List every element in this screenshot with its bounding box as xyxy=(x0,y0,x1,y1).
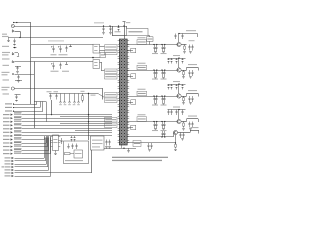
net label N9 xyxy=(14,130,22,132)
resistor R51 xyxy=(137,40,147,45)
capacitor C70 xyxy=(162,122,164,125)
capacitor C68 xyxy=(156,96,158,99)
ground xyxy=(189,76,192,78)
wire stub xyxy=(128,50,134,52)
wire xyxy=(178,34,180,43)
pin label 6 xyxy=(105,98,118,103)
connector pin P19 xyxy=(12,166,14,168)
node xyxy=(161,44,162,45)
net label X1 xyxy=(100,53,106,58)
ground xyxy=(128,148,130,150)
wire xyxy=(98,94,105,98)
wire xyxy=(40,102,42,108)
wire xyxy=(128,96,178,98)
supply rail xyxy=(168,84,186,86)
capacitor C11 xyxy=(56,94,58,96)
capacitor C22 xyxy=(12,51,14,54)
net label N10 xyxy=(14,134,22,136)
wire xyxy=(124,26,126,39)
node F xyxy=(92,57,94,59)
wire xyxy=(91,150,93,173)
inductor L1 xyxy=(70,45,72,47)
label xyxy=(5,172,11,173)
wire xyxy=(181,121,186,123)
label xyxy=(115,31,121,32)
connector pin P15 xyxy=(11,153,13,155)
transistor Q3 xyxy=(177,94,181,98)
label xyxy=(5,169,11,170)
label xyxy=(65,160,83,161)
node T1 xyxy=(13,103,14,104)
label xyxy=(161,130,167,131)
net label N12 xyxy=(14,141,22,143)
wire xyxy=(22,146,48,148)
ground xyxy=(174,149,177,151)
wire xyxy=(22,125,113,127)
net label N13 xyxy=(14,144,22,146)
wire xyxy=(22,114,113,116)
capacitor C36 xyxy=(76,144,78,146)
resistor R40 xyxy=(147,37,154,42)
ground xyxy=(16,71,19,73)
ground xyxy=(182,76,185,78)
ground xyxy=(162,103,165,105)
connector pin P18 xyxy=(12,163,14,165)
note text xyxy=(112,157,168,158)
label xyxy=(2,87,10,88)
wire xyxy=(181,70,186,72)
box U4 enclosure xyxy=(64,141,89,164)
capacitor C97 xyxy=(148,143,150,145)
label xyxy=(3,142,10,143)
ground xyxy=(13,44,16,46)
wire xyxy=(34,62,36,129)
wire xyxy=(15,160,46,162)
note text xyxy=(112,160,162,161)
wire xyxy=(22,118,113,120)
connector pin P10 xyxy=(11,135,13,137)
wire xyxy=(173,133,175,138)
oscillator Y1 xyxy=(91,136,105,150)
ground xyxy=(182,128,185,130)
wire xyxy=(46,138,48,165)
capacitor C5 xyxy=(60,63,62,65)
capacitor C77 xyxy=(182,84,184,86)
wire xyxy=(181,44,186,46)
wire xyxy=(128,70,178,72)
wire xyxy=(51,100,53,115)
connector line J15 xyxy=(190,130,199,132)
capacitor C69 xyxy=(162,96,164,99)
wire xyxy=(15,74,35,76)
wire xyxy=(15,170,49,172)
capacitor C75 xyxy=(171,58,173,60)
capacitor C71 xyxy=(176,58,178,60)
capacitor C67 xyxy=(156,70,158,73)
wire xyxy=(112,26,114,36)
node A xyxy=(13,22,14,23)
resistor R54 xyxy=(137,117,147,122)
wire xyxy=(121,145,123,148)
transistor Q4 xyxy=(177,119,181,123)
label xyxy=(2,58,10,59)
label xyxy=(3,128,10,129)
wire xyxy=(46,136,48,143)
wire stub xyxy=(128,76,134,78)
capacitor C73 xyxy=(192,70,194,72)
label xyxy=(91,95,96,96)
label xyxy=(51,71,59,72)
connector pin P9 xyxy=(11,131,13,133)
wire xyxy=(15,80,22,82)
capacitor C100 xyxy=(164,131,166,133)
IC U3 xyxy=(53,135,59,151)
label xyxy=(5,160,11,161)
ground xyxy=(148,149,151,151)
label xyxy=(2,166,5,167)
node xyxy=(88,93,89,94)
capacitor C67 xyxy=(162,45,164,48)
capacitor C68 xyxy=(154,122,156,125)
label xyxy=(3,121,10,122)
transistor Q10 xyxy=(11,24,14,27)
capacitor C74 xyxy=(192,96,194,98)
label xyxy=(161,53,167,54)
resistor R61 xyxy=(184,45,186,47)
wire xyxy=(128,142,176,144)
wire xyxy=(13,104,37,106)
label xyxy=(3,132,10,133)
wire xyxy=(15,166,48,168)
label xyxy=(188,64,197,65)
wire xyxy=(15,31,21,33)
wire xyxy=(128,121,178,123)
capacitor C33 xyxy=(109,140,111,142)
IC U5 xyxy=(74,150,83,158)
wire xyxy=(22,121,113,123)
resistor R4 xyxy=(74,94,76,102)
capacitor C76 xyxy=(182,58,184,60)
ground xyxy=(105,146,108,148)
wire xyxy=(46,102,48,122)
label xyxy=(5,166,11,167)
resistor R2 xyxy=(64,94,66,102)
node xyxy=(178,109,179,110)
label xyxy=(3,153,10,154)
wire xyxy=(22,128,113,130)
resistor R6 xyxy=(82,94,84,96)
wire xyxy=(178,58,180,68)
label xyxy=(3,139,10,140)
ground xyxy=(181,138,184,140)
wire xyxy=(126,26,128,29)
wire xyxy=(178,110,180,120)
label xyxy=(5,110,12,111)
capacitor C25 xyxy=(18,75,20,77)
label xyxy=(5,107,12,108)
label xyxy=(138,114,146,115)
capacitor C34 xyxy=(71,136,73,138)
wire xyxy=(100,50,105,52)
label xyxy=(2,54,9,55)
pin label 7 xyxy=(105,118,118,123)
label xyxy=(94,22,104,23)
wire xyxy=(45,138,47,162)
wire xyxy=(31,57,100,59)
wire xyxy=(178,84,180,94)
ground xyxy=(15,100,18,102)
wire xyxy=(22,143,47,145)
wire xyxy=(50,138,52,177)
pin label 1 xyxy=(105,45,118,50)
connector pin P5 xyxy=(11,117,13,119)
wire xyxy=(44,136,46,140)
label xyxy=(189,40,195,41)
wire xyxy=(8,37,103,39)
wire xyxy=(175,135,177,143)
connector pin P4 xyxy=(11,114,13,116)
polarized capacitor C2 xyxy=(60,46,62,49)
label xyxy=(3,93,10,94)
label xyxy=(161,79,167,80)
connector pin P14 xyxy=(11,149,13,151)
supply rail xyxy=(168,109,186,111)
label xyxy=(2,89,8,90)
label xyxy=(2,74,8,75)
wire xyxy=(30,23,32,105)
wire xyxy=(13,107,40,109)
ground xyxy=(55,151,57,153)
ground xyxy=(162,77,165,79)
label xyxy=(138,63,146,64)
transistor Q11 xyxy=(11,87,14,90)
resistor R30 xyxy=(12,73,14,75)
net label N15 xyxy=(14,151,22,153)
capacitor C77 xyxy=(171,110,173,112)
node xyxy=(51,114,52,115)
label xyxy=(161,105,167,106)
capacitor C62 xyxy=(131,74,136,78)
inductor L2 xyxy=(66,62,68,64)
wire xyxy=(15,158,45,160)
capacitor C24 xyxy=(17,66,19,68)
capacitor C98 xyxy=(151,143,153,145)
wire xyxy=(15,94,21,96)
resistor R62 xyxy=(183,70,185,72)
polarized capacitor C23 xyxy=(12,59,14,62)
wire xyxy=(34,61,93,63)
pin label 8 xyxy=(105,123,118,128)
wire xyxy=(178,132,190,134)
label xyxy=(3,65,10,66)
label xyxy=(5,175,11,176)
label xyxy=(152,79,158,80)
capacitor C70 xyxy=(168,58,170,60)
node xyxy=(153,44,154,45)
capacitor C66 xyxy=(154,70,156,73)
node B xyxy=(19,37,20,38)
net label N4 xyxy=(14,112,22,114)
pin label 4 xyxy=(105,75,118,80)
capacitor C43 xyxy=(110,26,112,28)
net label N5 xyxy=(14,116,22,118)
node xyxy=(178,33,179,34)
label xyxy=(5,103,12,104)
wire xyxy=(186,68,188,71)
wire xyxy=(31,44,93,46)
capacitor C44 xyxy=(118,26,120,28)
capacitor C75 xyxy=(192,122,194,124)
wire xyxy=(15,176,51,178)
node xyxy=(178,83,179,84)
capacitor C67 xyxy=(154,96,156,99)
wire xyxy=(36,102,38,105)
ground xyxy=(7,40,10,42)
node D xyxy=(123,25,124,26)
node xyxy=(161,69,162,70)
capacitor C21 xyxy=(14,39,16,41)
capacitor C20 xyxy=(12,28,14,31)
connector pin P12 xyxy=(11,142,13,144)
ground xyxy=(109,32,112,34)
net label N8 xyxy=(14,127,22,129)
node xyxy=(88,114,89,115)
wire xyxy=(22,150,50,152)
pin label 3 xyxy=(105,69,118,74)
label xyxy=(138,37,146,38)
label xyxy=(3,150,10,151)
polarized capacitor C1 xyxy=(53,46,55,49)
capacitor C61 xyxy=(131,48,136,52)
ground xyxy=(154,103,157,105)
net label N7 xyxy=(14,123,22,125)
wire xyxy=(44,138,46,159)
label xyxy=(3,114,10,115)
connector pin P13 xyxy=(11,146,13,148)
wire xyxy=(22,135,113,137)
wire xyxy=(15,88,104,90)
node xyxy=(153,95,154,96)
label xyxy=(2,52,10,53)
label xyxy=(3,118,10,119)
wire xyxy=(22,132,113,134)
capacitor C99 xyxy=(162,131,164,133)
resistor R1 xyxy=(60,94,62,102)
label xyxy=(3,125,10,126)
label xyxy=(188,116,197,117)
label xyxy=(2,36,9,37)
capacitor C68 xyxy=(162,70,164,73)
transistor Q1 xyxy=(177,42,181,46)
label xyxy=(173,55,180,56)
supply rail xyxy=(168,58,186,60)
capacitor C42 xyxy=(103,26,105,28)
wire xyxy=(15,61,35,63)
capacitor C71 xyxy=(189,45,191,47)
label xyxy=(152,105,158,106)
wire xyxy=(102,89,104,100)
capacitor C72 xyxy=(189,70,191,72)
ground xyxy=(189,102,192,104)
label xyxy=(2,46,9,47)
label xyxy=(173,107,180,108)
connector line J11 xyxy=(179,33,198,35)
label xyxy=(51,54,57,55)
capacitor C31 xyxy=(72,144,74,146)
capacitor C63 xyxy=(131,100,136,104)
capacitor C68 xyxy=(164,45,166,48)
wire xyxy=(100,46,105,48)
ground xyxy=(183,51,186,53)
label xyxy=(152,53,158,54)
wire stub xyxy=(128,102,134,104)
node xyxy=(161,121,162,122)
resistor R52 xyxy=(137,65,147,70)
diode D1 xyxy=(13,47,17,49)
node xyxy=(153,69,154,70)
connector pin P20 xyxy=(12,169,14,171)
ground xyxy=(189,51,192,53)
node T3 xyxy=(13,111,14,112)
capacitor C69 xyxy=(156,122,158,125)
capacitor C72 xyxy=(192,45,194,47)
wire xyxy=(15,26,127,28)
node C xyxy=(123,148,124,149)
capacitor C72 xyxy=(176,84,178,86)
net label N14 xyxy=(14,148,22,150)
ground xyxy=(108,146,111,148)
label xyxy=(188,90,197,91)
net label N6 xyxy=(14,119,22,121)
capacitor C30 xyxy=(61,138,63,140)
label xyxy=(152,130,158,131)
wire xyxy=(48,136,50,150)
power flag VCC xyxy=(124,22,126,26)
label xyxy=(3,135,10,136)
capacitor C35 xyxy=(74,136,76,138)
ground xyxy=(17,80,20,82)
connector pin P7 xyxy=(11,124,13,126)
polarized capacitor C4 xyxy=(53,63,55,66)
label xyxy=(48,40,64,41)
wire xyxy=(15,172,92,174)
wire xyxy=(148,35,150,37)
wire xyxy=(22,153,51,155)
resistor R53 xyxy=(137,91,147,96)
wire xyxy=(15,66,21,68)
label xyxy=(62,71,69,72)
capacitor C74 xyxy=(189,122,191,124)
wire xyxy=(112,35,127,37)
label xyxy=(126,22,131,23)
capacitor C71 xyxy=(168,84,170,86)
label xyxy=(3,146,10,147)
wire stub xyxy=(128,127,134,129)
connector pin P17 xyxy=(12,160,14,162)
wire xyxy=(89,93,98,95)
capacitor C71 xyxy=(164,122,166,125)
IC U1 pins xyxy=(118,40,120,42)
label xyxy=(2,72,10,73)
label xyxy=(191,127,199,128)
node xyxy=(153,121,154,122)
node T2 xyxy=(13,107,14,108)
wire xyxy=(75,130,112,132)
connector J3 xyxy=(93,60,100,69)
label xyxy=(173,81,180,82)
capacitor C32 xyxy=(106,140,108,142)
wire xyxy=(128,44,178,46)
